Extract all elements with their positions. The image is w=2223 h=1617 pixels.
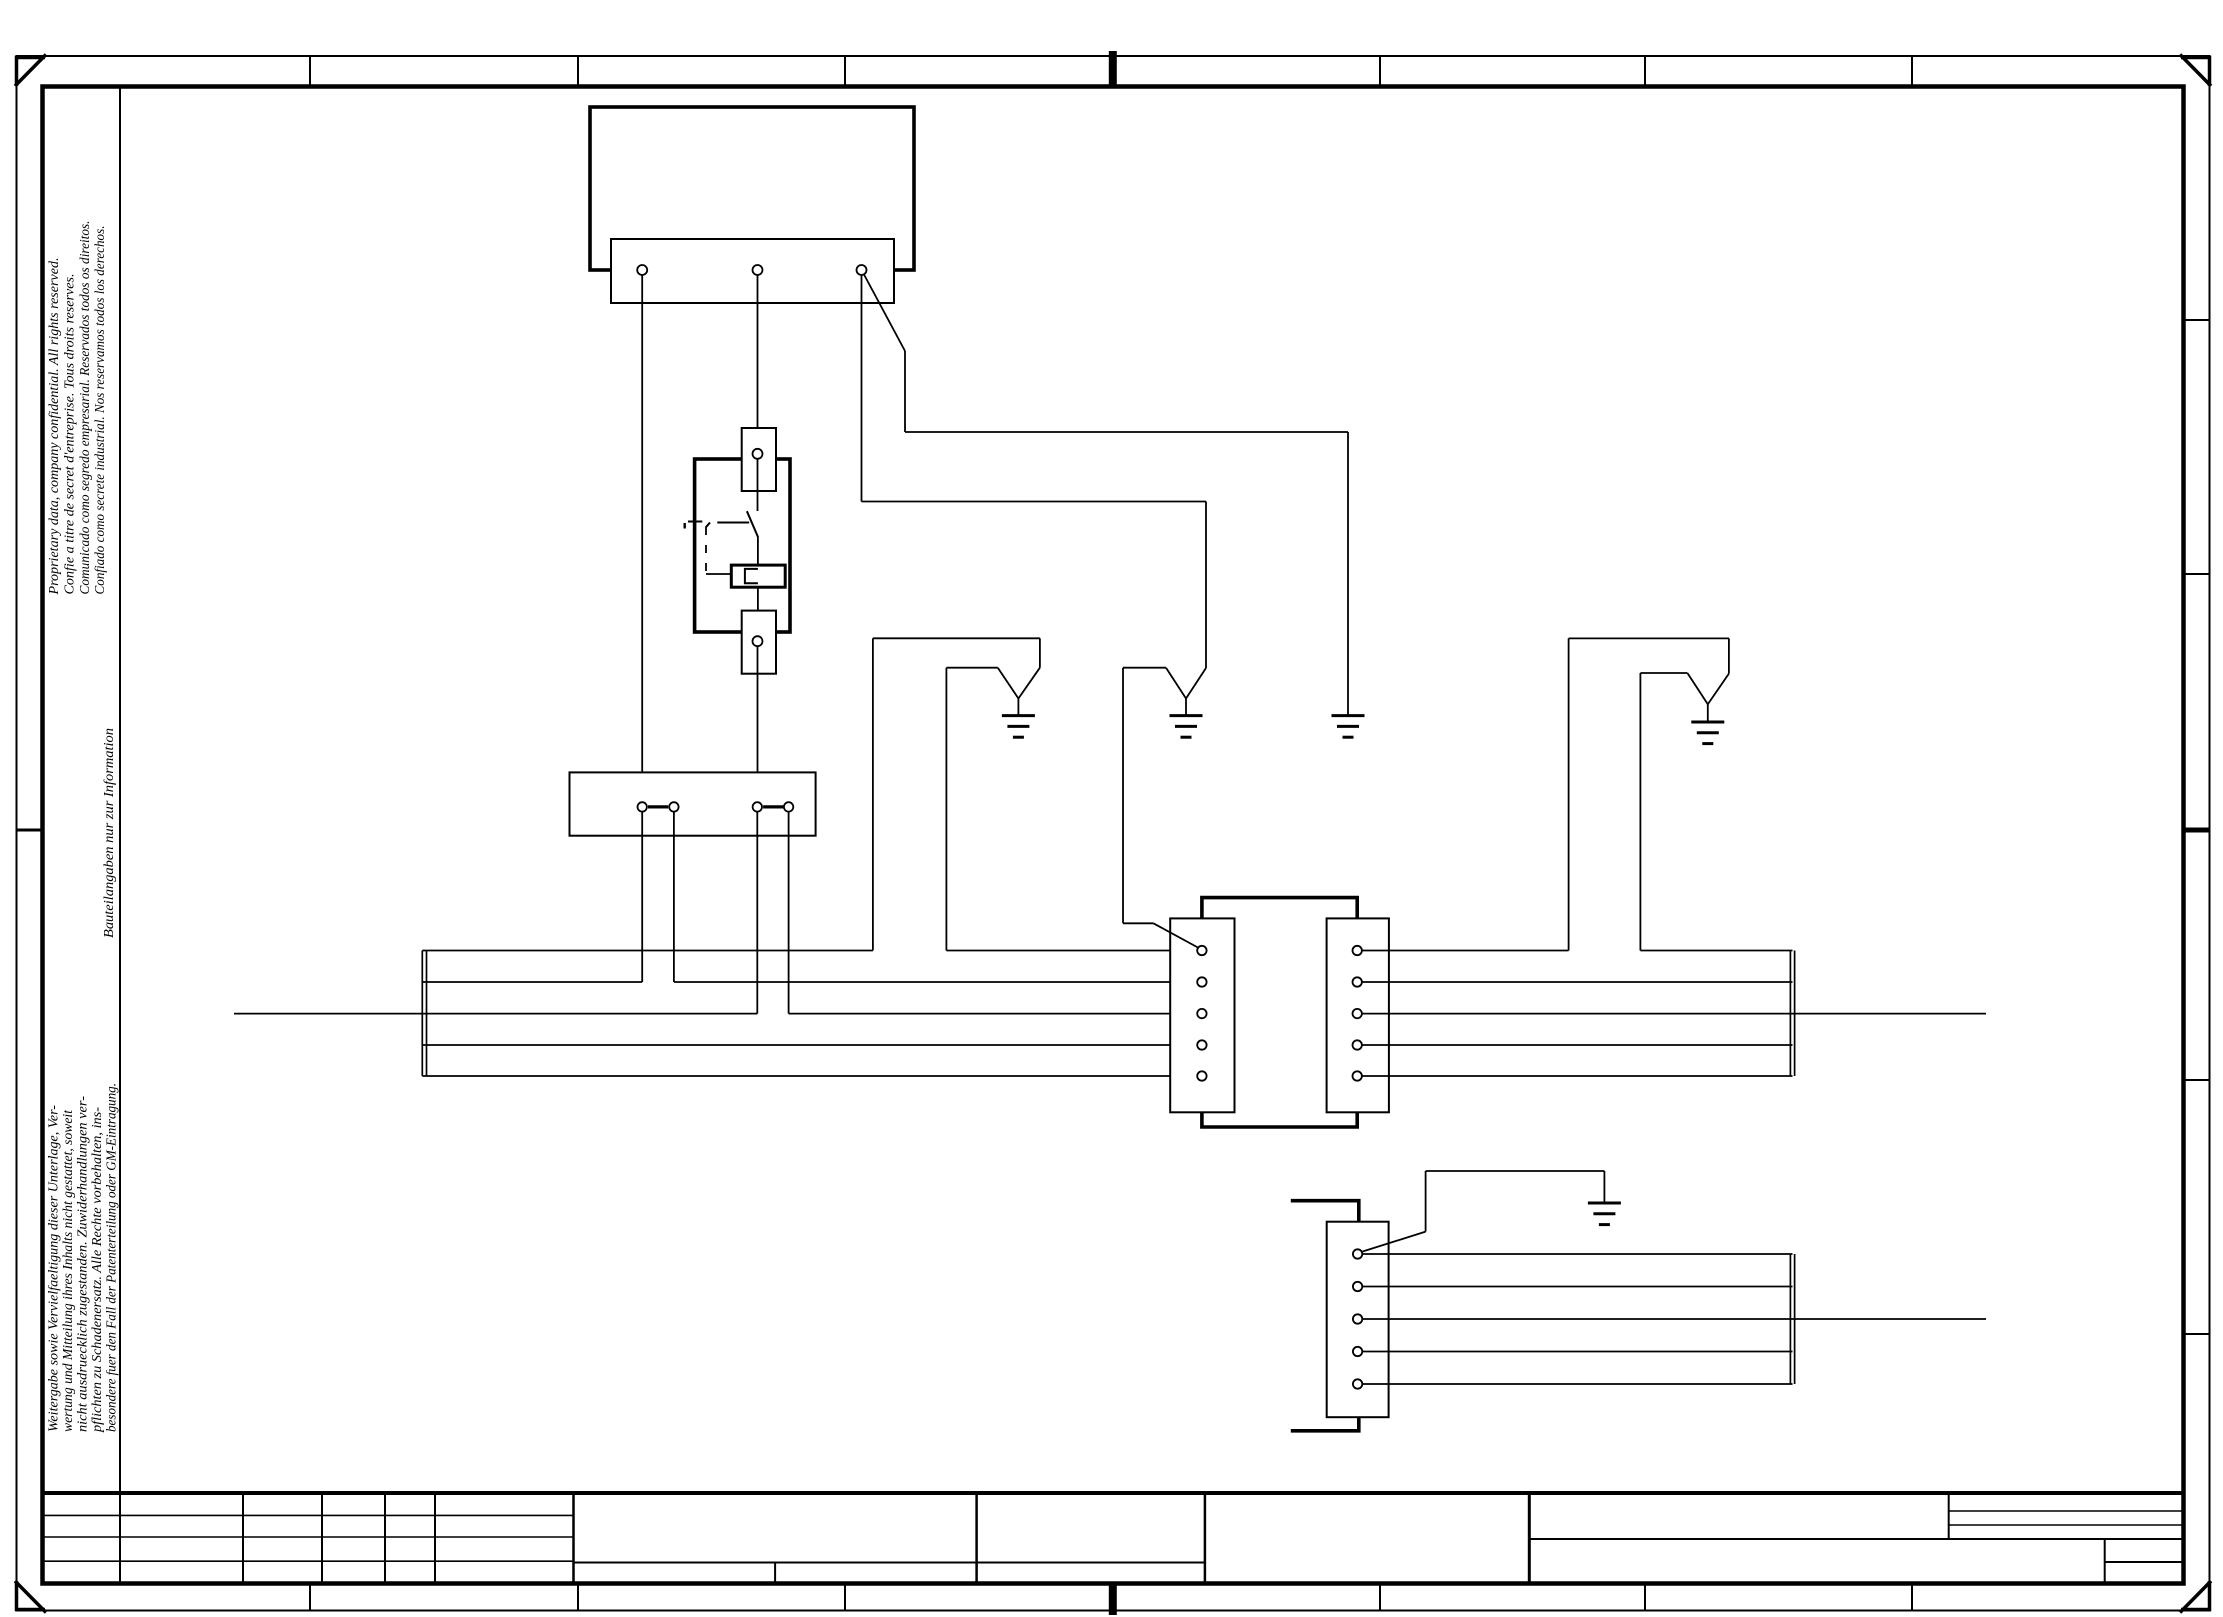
- bus line 2 right of connector: [1362, 981, 1793, 983]
- relay K1 top pin box: [742, 428, 776, 491]
- ground G5: [1691, 722, 1724, 744]
- corner trim mark bottom-left: [15, 1581, 46, 1613]
- ground G5 riser left: [1569, 638, 1729, 950]
- title block left table verticals: [120, 1493, 574, 1584]
- bus line 1 right segment: [946, 950, 1197, 952]
- relay K1 bottom pin circle: [753, 636, 763, 646]
- border tick top: [844, 56, 846, 87]
- connector strip X1 on A1: [611, 239, 894, 303]
- ground G2 branch from connector: [1123, 668, 1186, 924]
- margin column divider: [119, 87, 121, 1494]
- border tick bottom: [577, 1584, 579, 1611]
- border tick right: [2184, 319, 2210, 321]
- border centering tick bottom: [1109, 1584, 1117, 1616]
- bus line 4 right of connector: [1362, 1044, 1793, 1046]
- border tick right: [2184, 1079, 2210, 1081]
- relay K1 coil box: [731, 565, 785, 587]
- bus line 4: [422, 1044, 1197, 1046]
- pin X2-3 left: [1197, 1009, 1206, 1018]
- bus line 3 right of connector: [1362, 1013, 1986, 1015]
- right bus bar upper: [1790, 951, 1794, 1077]
- border tick top: [1911, 56, 1913, 87]
- contact S1b left: [753, 802, 762, 811]
- svg-text:Bauteilangaben nur zur Informa: Bauteilangaben nur zur Information: [102, 728, 117, 938]
- border tick bottom: [1644, 1584, 1646, 1611]
- relay K1 actuator bar: [717, 522, 749, 524]
- X3 bus line 4: [1362, 1351, 1792, 1353]
- ground G5 stub: [1707, 704, 1709, 722]
- border tick right: [2184, 573, 2210, 575]
- border tick top: [309, 56, 311, 87]
- right bus bar lower: [1790, 1254, 1794, 1384]
- border tick top: [577, 56, 579, 87]
- connector X2 bottom bracket: [1202, 1112, 1357, 1127]
- connector X2 right shell: [1327, 918, 1389, 1112]
- bus line 5: [422, 1075, 1197, 1077]
- svg-text:Comunicado como segredo empres: Comunicado como segredo empresarial. Res…: [77, 221, 92, 595]
- bus line 2 left segment: [422, 981, 642, 983]
- connector X2 top bracket: [1202, 898, 1357, 919]
- title block middle cells: [574, 1493, 1205, 1584]
- relay K1 coil lead down: [757, 587, 759, 636]
- bus line 1 left segment: [422, 950, 873, 952]
- relay K1 armature notch: [745, 569, 758, 583]
- wire diagonal into X2 pin 1: [1123, 923, 1199, 948]
- corner trim mark top-right: [2180, 55, 2211, 87]
- relay K1 blade lead to coil: [757, 538, 759, 569]
- pin X1-1: [637, 265, 647, 275]
- relay K1 bottom pin box: [742, 611, 776, 674]
- connector X2 left shell: [1170, 918, 1234, 1112]
- border tick bottom: [1911, 1584, 1913, 1611]
- ground G4: [1588, 1203, 1621, 1225]
- X3 bus line 5: [1362, 1383, 1792, 1385]
- wire X1-2 to relay top pin: [757, 275, 759, 449]
- left bus bar: [422, 951, 426, 1077]
- bus line 3 right segment: [789, 1013, 1198, 1015]
- X3 bus line 3: [1362, 1318, 1986, 1320]
- relay K1 switch blade: [747, 511, 758, 537]
- title block right cells: [1529, 1493, 2183, 1584]
- bus line 1 right-of-connector left segment: [1362, 950, 1569, 952]
- contact S1a left: [638, 802, 647, 811]
- relay K1 fixed contact lead: [757, 459, 759, 511]
- pin X2-2 left: [1197, 977, 1206, 986]
- control unit box A1: [590, 107, 914, 270]
- ground G2: [1170, 716, 1203, 738]
- relay K1 linkage dashed: [705, 527, 707, 574]
- pin X2-3 right: [1353, 1009, 1362, 1018]
- proprietary notice (4 rotated lines): [46, 221, 107, 596]
- contact S1b bridge: [763, 805, 783, 808]
- pin X2-4 right: [1353, 1040, 1362, 1049]
- pin X2-1 left: [1197, 946, 1206, 955]
- wire S1a-left down to bus line 2: [641, 812, 643, 982]
- border tick right: [2184, 1333, 2210, 1335]
- pin X3-5: [1353, 1379, 1362, 1388]
- wire X1-3 branch to middle ground: [862, 275, 1207, 699]
- corner trim mark top-left: [15, 55, 46, 87]
- svg-text:wertung und Mitteilung ihres I: wertung und Mitteilung ihres Inhalts nic…: [60, 1110, 75, 1432]
- ground G1 riser left: [946, 668, 1018, 951]
- connector X3 shell: [1327, 1222, 1389, 1418]
- pin X3-4: [1353, 1347, 1362, 1356]
- ground G1 riser right: [873, 638, 1040, 950]
- german notice (5 rotated lines): [46, 1083, 119, 1433]
- relay K1 body: [695, 459, 790, 632]
- connector X3 top bracket: [1291, 1201, 1359, 1222]
- border centering tick right: [2184, 828, 2210, 833]
- wire S1b-left down to bus line 3: [756, 812, 758, 1014]
- svg-text:Confie a titre de secret: Confie a titre de secret d'entreprise. T…: [62, 274, 77, 595]
- contact S1a bridge: [648, 805, 668, 808]
- pin X3-3: [1353, 1314, 1362, 1323]
- wire relay K1 to switch contact: [757, 646, 759, 802]
- pin X2-1 right: [1353, 946, 1362, 955]
- svg-text:nicht ausdruecklich zugestan: nicht ausdruecklich zugestanden. Zuwider…: [75, 1096, 90, 1432]
- ground G1: [1002, 716, 1035, 738]
- ground G5 riser right: [1640, 673, 1707, 951]
- pin X3-2: [1353, 1282, 1362, 1291]
- border tick bottom: [309, 1584, 311, 1611]
- pin X2-2 right: [1353, 977, 1362, 986]
- relay K1 linkage to coil: [706, 573, 731, 575]
- border tick top: [1644, 56, 1646, 87]
- relay K1 actuator bar left stub: [688, 521, 702, 523]
- svg-text:pflichten zu Schadenersatz.: pflichten zu Schadenersatz. Alle Rechte …: [89, 1107, 104, 1433]
- ground G2 stub: [1185, 699, 1187, 716]
- switch block S1: [570, 772, 816, 835]
- bus line 2 right segment: [674, 981, 1197, 983]
- pin X1-3: [857, 265, 867, 275]
- pin X2-5 left: [1197, 1071, 1206, 1080]
- contact S1a right: [669, 802, 678, 811]
- bus line 5 right of connector: [1362, 1075, 1793, 1077]
- X3 bus line 2: [1362, 1286, 1792, 1288]
- wire S1a-right down to bus line 2: [673, 812, 675, 982]
- pin X1-2: [753, 265, 763, 275]
- wire S1b-right down to bus line 3: [788, 812, 790, 1014]
- connector X3 bottom bracket: [1291, 1417, 1359, 1431]
- title block left table rows: [43, 1515, 574, 1561]
- border centering tick left: [17, 829, 43, 832]
- relay K1 actuator tick: [706, 523, 710, 528]
- svg-text:Proprietary data, company c: Proprietary data, company confidential. …: [46, 258, 61, 596]
- bus line 3 left segment: [234, 1013, 757, 1015]
- svg-text:Weitergabe sowie Vervielfael: Weitergabe sowie Vervielfaeltigung diese…: [46, 1105, 61, 1432]
- pin X3-1: [1353, 1249, 1362, 1258]
- wire X1-3 branch to right ground: [864, 275, 1348, 716]
- contact S1b right: [784, 802, 793, 811]
- border tick top: [1379, 56, 1381, 87]
- svg-text:besondere fuer den Fall der Pa: besondere fuer den Fall der Patenterteil…: [104, 1083, 119, 1432]
- border tick bottom: [844, 1584, 846, 1611]
- wire X3 pin1 to ground G4: [1363, 1171, 1605, 1252]
- X3 bus line 1: [1362, 1253, 1792, 1255]
- border tick bottom: [1379, 1584, 1381, 1611]
- bus line 1 right-of-connector right segment: [1640, 950, 1792, 952]
- corner trim mark bottom-right: [2180, 1581, 2211, 1613]
- ground G1 stub: [1017, 699, 1019, 716]
- svg-text:Confiado como secrete industri: Confiado como secrete industrial. Nos re…: [92, 226, 107, 595]
- pin X2-4 left: [1197, 1040, 1206, 1049]
- wire X1-1 to switch contact: [641, 275, 643, 803]
- pin X2-5 right: [1353, 1071, 1362, 1080]
- relay K1 pin mark dash: [684, 523, 686, 529]
- relay K1 top pin circle: [753, 449, 763, 459]
- title block top rule: [43, 1491, 2184, 1495]
- border centering tick top: [1109, 51, 1117, 87]
- ground G3: [1332, 716, 1365, 738]
